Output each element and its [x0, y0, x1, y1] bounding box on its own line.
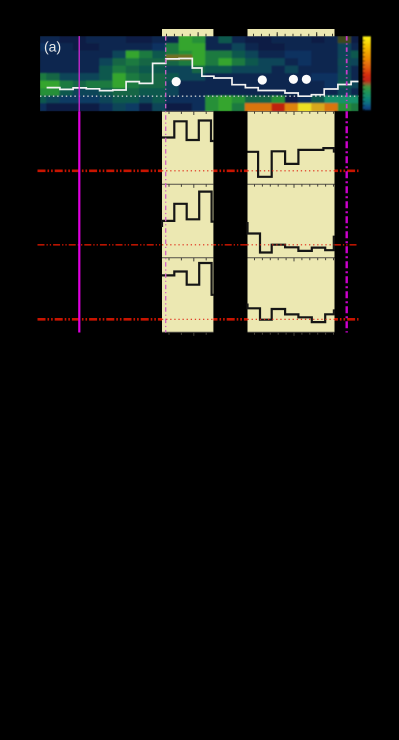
magenta dash-dot line mid (full height) — [165, 36, 167, 332]
histogram step line row2 narrow — [162, 192, 213, 227]
spectrogram heatmap panel (a) — [40, 36, 359, 112]
histogram step line row3 wide — [248, 304, 335, 323]
beige highlight column wide — [248, 29, 335, 332]
red dashed threshold line row1 (figure level, thick) — [38, 170, 359, 173]
magenta marker line left (thick lower part) — [78, 111, 80, 332]
panel row boundary lines — [162, 111, 335, 332]
colorbar — [363, 36, 371, 110]
magenta dash-dot line right (thin, inside spectrogram) — [346, 36, 348, 111]
beige highlight column narrow — [162, 29, 213, 332]
spectrogram top axis ticks — [167, 32, 333, 36]
histogram step line row3 narrow — [162, 263, 213, 295]
white marker dot 4 — [302, 75, 311, 84]
red dashed threshold line row3 (figure level, thick) — [38, 318, 359, 321]
white marker dot 1 — [172, 77, 181, 86]
panel axis ticks — [169, 111, 334, 336]
magenta dash-dot marker line right (thick lower part) — [346, 111, 348, 332]
white step trace — [47, 59, 359, 97]
svg-text:(a): (a) — [44, 39, 61, 55]
red dotted threshold inside panels row1 — [162, 171, 335, 319]
histogram step line row2 wide — [248, 222, 335, 253]
white marker dot 2 — [258, 75, 267, 84]
white dotted reference line — [40, 95, 359, 97]
red dashed threshold line row2 (figure level, thin) — [38, 244, 359, 246]
histogram step line row1 wide — [248, 148, 335, 177]
magenta marker line left (thin, inside spectrogram) — [78, 36, 80, 111]
histogram step line row1 narrow — [162, 121, 213, 142]
white marker dot 3 — [289, 75, 298, 84]
